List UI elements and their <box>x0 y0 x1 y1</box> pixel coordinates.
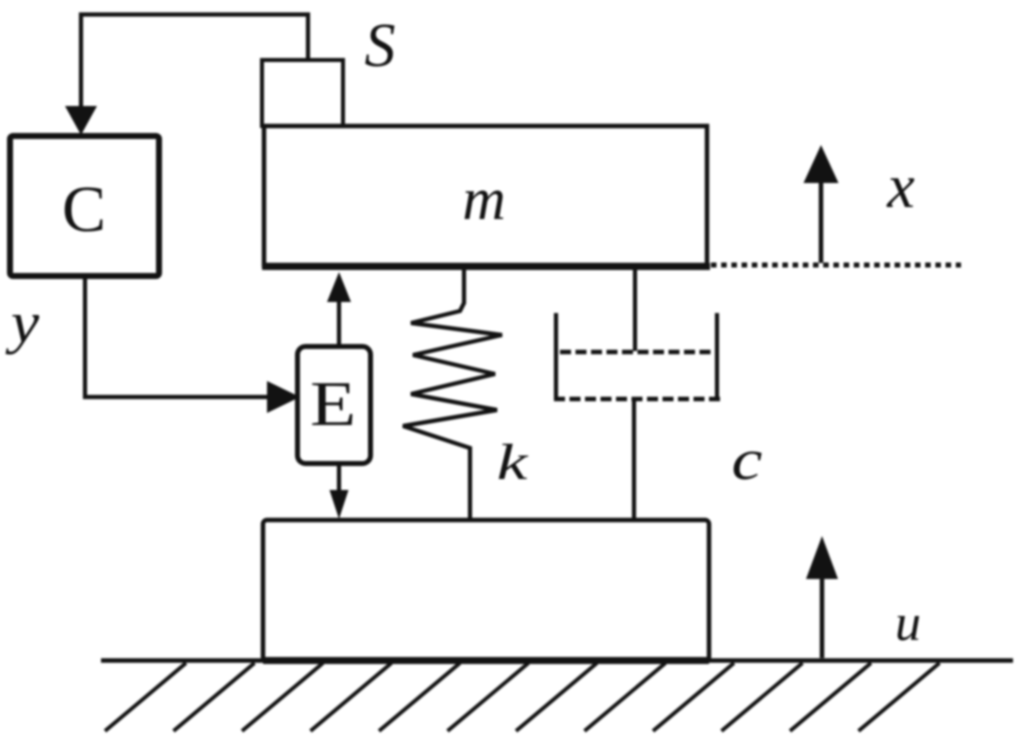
svg-text:k: k <box>497 434 529 490</box>
svg-text:m: m <box>462 166 505 232</box>
svg-text:C: C <box>62 173 106 246</box>
svg-text:u: u <box>895 595 921 652</box>
svg-text:E: E <box>310 369 356 439</box>
svg-text:c: c <box>732 427 763 491</box>
svg-text:S: S <box>365 12 396 80</box>
svg-text:x: x <box>886 153 915 221</box>
svg-text:y: y <box>5 292 41 356</box>
